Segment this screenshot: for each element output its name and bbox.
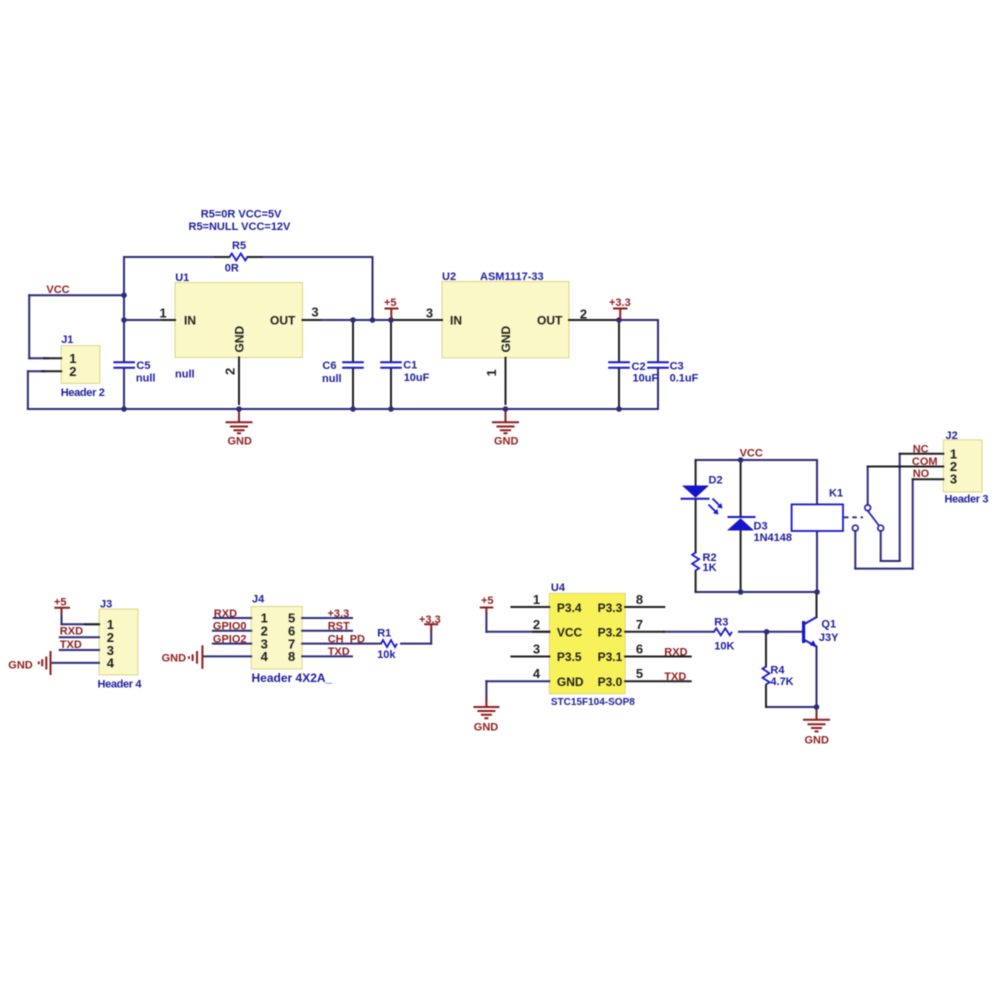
svg-text:RXD: RXD bbox=[60, 626, 83, 638]
svg-text:R5: R5 bbox=[232, 240, 246, 252]
svg-text:OUT: OUT bbox=[270, 314, 296, 328]
svg-text:+5: +5 bbox=[384, 297, 397, 309]
svg-text:10K: 10K bbox=[714, 641, 734, 653]
svg-text:C1: C1 bbox=[403, 360, 417, 372]
svg-text:ASM1117-33: ASM1117-33 bbox=[480, 271, 544, 283]
svg-text:4: 4 bbox=[533, 666, 541, 681]
svg-text:GND: GND bbox=[499, 326, 513, 353]
svg-text:TXD: TXD bbox=[328, 646, 350, 658]
svg-text:C2: C2 bbox=[632, 361, 646, 373]
svg-text:R4: R4 bbox=[770, 664, 785, 676]
svg-text:3: 3 bbox=[311, 305, 318, 320]
svg-text:2: 2 bbox=[533, 617, 540, 632]
svg-text:+3.3: +3.3 bbox=[609, 297, 631, 309]
svg-text:R5=0R VCC=5V: R5=0R VCC=5V bbox=[201, 209, 282, 221]
svg-text:CH_PD: CH_PD bbox=[328, 633, 365, 645]
svg-text:VCC: VCC bbox=[46, 284, 69, 296]
svg-text:TXD: TXD bbox=[60, 639, 82, 651]
svg-text:+3.3: +3.3 bbox=[419, 614, 441, 626]
svg-text:Header 4X2A_: Header 4X2A_ bbox=[252, 671, 333, 685]
svg-text:R5=NULL VCC=12V: R5=NULL VCC=12V bbox=[189, 221, 292, 233]
svg-text:GND: GND bbox=[805, 735, 830, 747]
svg-text:2: 2 bbox=[69, 364, 76, 379]
svg-text:4: 4 bbox=[107, 656, 115, 671]
svg-text:R1: R1 bbox=[377, 627, 391, 639]
svg-text:1: 1 bbox=[159, 306, 166, 321]
svg-text:null: null bbox=[136, 372, 156, 384]
svg-text:GND: GND bbox=[474, 721, 499, 733]
svg-text:P3.0: P3.0 bbox=[598, 675, 623, 689]
svg-text:3: 3 bbox=[533, 642, 540, 657]
svg-text:J2: J2 bbox=[946, 430, 958, 442]
svg-text:8: 8 bbox=[288, 649, 295, 664]
svg-text:J3Y: J3Y bbox=[819, 632, 839, 644]
svg-text:STC15F104-SOP8: STC15F104-SOP8 bbox=[551, 697, 635, 708]
svg-text:D2: D2 bbox=[709, 475, 723, 487]
svg-text:4.7K: 4.7K bbox=[770, 676, 793, 688]
svg-text:R3: R3 bbox=[714, 617, 728, 629]
svg-text:null: null bbox=[175, 369, 195, 381]
svg-text:GND: GND bbox=[557, 675, 584, 689]
svg-text:VCC: VCC bbox=[740, 448, 763, 460]
svg-text:IN: IN bbox=[184, 314, 196, 328]
svg-text:Header 2: Header 2 bbox=[61, 387, 105, 399]
svg-text:OUT: OUT bbox=[537, 314, 563, 328]
svg-text:J4: J4 bbox=[252, 594, 265, 606]
svg-text:VCC: VCC bbox=[557, 626, 583, 640]
svg-text:D3: D3 bbox=[754, 520, 768, 532]
svg-text:U2: U2 bbox=[442, 271, 456, 283]
svg-text:5: 5 bbox=[636, 666, 643, 681]
svg-text:C5: C5 bbox=[136, 360, 150, 372]
svg-text:GND: GND bbox=[228, 436, 253, 448]
svg-text:P3.2: P3.2 bbox=[598, 626, 623, 640]
svg-text:+5: +5 bbox=[481, 595, 494, 607]
svg-text:1: 1 bbox=[533, 592, 540, 607]
svg-text:NO: NO bbox=[913, 468, 930, 480]
svg-text:1: 1 bbox=[484, 369, 499, 376]
svg-text:C3: C3 bbox=[670, 361, 684, 373]
svg-text:10uF: 10uF bbox=[633, 373, 659, 385]
svg-text:3: 3 bbox=[950, 472, 957, 487]
svg-text:P3.4: P3.4 bbox=[557, 601, 582, 615]
svg-text:RXD: RXD bbox=[214, 608, 237, 620]
svg-text:GND: GND bbox=[162, 653, 187, 665]
svg-text:U4: U4 bbox=[551, 582, 566, 594]
svg-text:NC: NC bbox=[913, 444, 929, 456]
svg-text:GND: GND bbox=[494, 436, 519, 448]
svg-text:2: 2 bbox=[223, 368, 238, 375]
svg-text:7: 7 bbox=[636, 617, 643, 632]
svg-text:IN: IN bbox=[450, 314, 462, 328]
svg-text:0R: 0R bbox=[225, 263, 239, 275]
svg-text:RST: RST bbox=[328, 621, 350, 633]
svg-text:3: 3 bbox=[426, 306, 433, 321]
svg-text:C6: C6 bbox=[322, 360, 336, 372]
svg-text:J3: J3 bbox=[100, 599, 112, 611]
svg-text:Q1: Q1 bbox=[821, 618, 836, 630]
svg-text:null: null bbox=[322, 373, 342, 385]
svg-text:GND: GND bbox=[233, 326, 247, 353]
svg-text:TXD: TXD bbox=[664, 671, 686, 683]
svg-text:GPIO0: GPIO0 bbox=[213, 621, 247, 633]
svg-text:GND: GND bbox=[8, 660, 33, 672]
svg-text:6: 6 bbox=[636, 642, 643, 657]
svg-text:Header 3: Header 3 bbox=[945, 494, 989, 506]
svg-text:+5: +5 bbox=[54, 597, 67, 609]
svg-text:+3.3: +3.3 bbox=[328, 608, 350, 620]
svg-text:10k: 10k bbox=[377, 649, 396, 661]
svg-text:Header 4: Header 4 bbox=[98, 678, 143, 690]
svg-text:2: 2 bbox=[580, 307, 587, 322]
svg-text:8: 8 bbox=[636, 592, 643, 607]
svg-text:J1: J1 bbox=[61, 334, 73, 346]
svg-text:GPIO2: GPIO2 bbox=[213, 633, 247, 645]
svg-text:P3.1: P3.1 bbox=[598, 650, 623, 664]
svg-text:RXD: RXD bbox=[664, 646, 687, 658]
svg-text:1K: 1K bbox=[703, 562, 717, 574]
svg-text:K1: K1 bbox=[829, 488, 843, 500]
svg-text:COM: COM bbox=[912, 456, 938, 468]
svg-text:10uF: 10uF bbox=[404, 372, 430, 384]
svg-text:U1: U1 bbox=[175, 272, 189, 284]
svg-text:0.1uF: 0.1uF bbox=[670, 373, 699, 385]
svg-text:4: 4 bbox=[261, 649, 269, 664]
svg-text:P3.3: P3.3 bbox=[598, 601, 623, 615]
svg-text:P3.5: P3.5 bbox=[557, 650, 582, 664]
svg-text:1N4148: 1N4148 bbox=[754, 532, 793, 544]
